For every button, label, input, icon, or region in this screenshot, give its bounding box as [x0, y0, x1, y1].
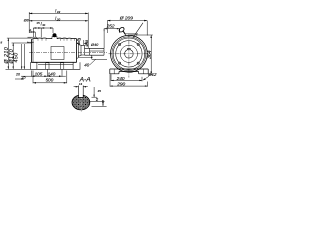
svg-text:14: 14: [79, 82, 83, 86]
bearing shield: [77, 40, 85, 59]
bottom-left dim row1 chained 105/140: [31, 70, 65, 77]
svg-text:240: 240: [116, 76, 125, 82]
dim 240: [111, 74, 142, 81]
svg-text:450: 450: [13, 52, 19, 62]
dim l20: [29, 20, 88, 22]
leader D12: [143, 76, 149, 80]
svg-text:290: 290: [116, 82, 125, 88]
svg-text:500: 500: [46, 78, 54, 83]
svg-text:Ø12: Ø12: [147, 72, 157, 77]
motor body side view: [27, 37, 76, 62]
svg-text:51: 51: [95, 98, 99, 102]
svg-text:45: 45: [98, 89, 102, 93]
eyebolt boss: [52, 35, 57, 38]
foot slot 1: [46, 63, 49, 70]
eyebolt front: [118, 27, 125, 33]
svg-text:Ø8: Ø8: [23, 18, 29, 22]
shaft section circle: [60, 58, 90, 133]
front view circles: [110, 35, 147, 72]
svg-text:140: 140: [48, 71, 56, 76]
svg-text:20: 20: [56, 18, 61, 22]
shaft: [85, 48, 105, 55]
text labels: [1, 9, 158, 104]
dim small b: [29, 31, 35, 37]
svg-text:364: 364: [147, 50, 153, 59]
bottom-left dim row2: [33, 71, 67, 84]
svg-text:45: 45: [77, 37, 81, 41]
svg-text:20: 20: [15, 72, 20, 76]
left vertical dims: [6, 38, 32, 69]
dim l31 chained: [33, 27, 53, 37]
dim D209: [107, 20, 147, 36]
centerlines front view: [109, 34, 150, 78]
dim 364: [130, 35, 153, 75]
section b dim: [74, 86, 88, 88]
svg-text:48: 48: [101, 100, 105, 104]
feet front view: [110, 69, 148, 74]
svg-text:31: 31: [42, 23, 46, 27]
section right dims: [89, 87, 106, 107]
centerline shaft axis: [29, 52, 107, 54]
under-shaft arrow: [90, 55, 107, 64]
svg-text:105: 105: [35, 71, 43, 76]
bottom-left small dims: [15, 76, 31, 80]
svg-text:Ø40: Ø40: [90, 43, 99, 47]
svg-text:252: 252: [106, 23, 115, 29]
svg-text:15: 15: [36, 21, 40, 25]
dim l33: [29, 12, 88, 48]
svg-text:33: 33: [57, 10, 61, 14]
dim 290: [110, 74, 148, 87]
svg-text:Ø 209: Ø 209: [119, 15, 133, 21]
svg-text:25: 25: [21, 76, 26, 80]
leader diagonal: [133, 23, 143, 38]
inner rect terminal box: [51, 47, 64, 60]
svg-text:40: 40: [84, 62, 89, 67]
hub dim: [77, 40, 88, 46]
keyway: [79, 86, 83, 98]
foot slot 2: [60, 63, 64, 70]
svg-text:Ø48: Ø48: [85, 40, 89, 48]
dim 252: [104, 28, 119, 48]
feet side view: [31, 62, 80, 69]
eyebolt dot: [53, 33, 57, 37]
